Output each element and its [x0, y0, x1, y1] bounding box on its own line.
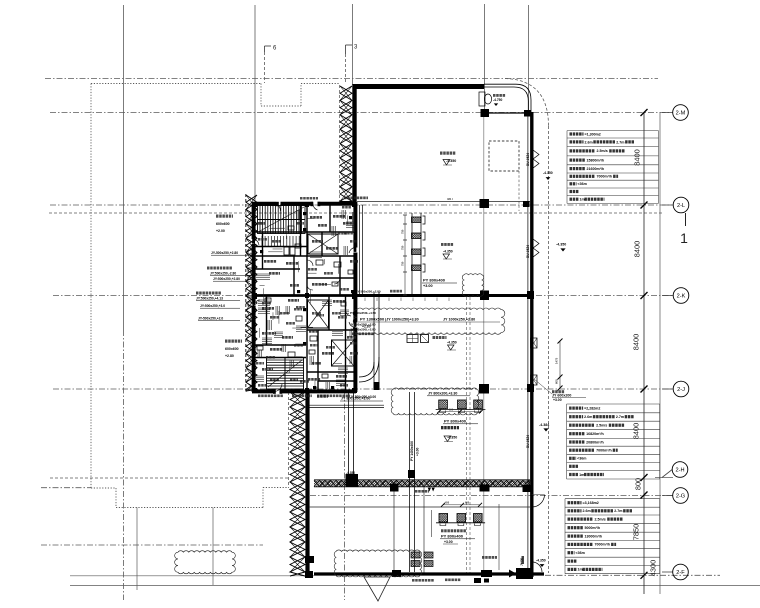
svg-text:-4.750: -4.750 [493, 98, 503, 102]
svg-text:7000m³/h: 7000m³/h [596, 448, 612, 452]
svg-text:1: 1 [680, 230, 688, 246]
svg-text:15800m³/h: 15800m³/h [587, 158, 605, 162]
svg-text:PY 800x400: PY 800x400 [441, 534, 464, 539]
svg-text:<36m: <36m [578, 182, 587, 186]
svg-text:JY 800x200,+3.30: JY 800x200,+3.30 [428, 392, 457, 396]
svg-text:JY-500x250,+2.0: JY-500x250,+2.0 [198, 317, 223, 321]
svg-text:2.5m/s: 2.5m/s [596, 423, 607, 427]
svg-text:-4.350: -4.350 [536, 559, 546, 563]
svg-text:600x600: 600x600 [225, 347, 239, 351]
svg-text:-4.350: -4.350 [447, 341, 457, 345]
svg-text:=2,282m2: =2,282m2 [584, 406, 600, 410]
svg-text:8400: 8400 [632, 334, 641, 350]
svg-text:150: 150 [449, 409, 454, 412]
svg-text:-4.384: -4.384 [539, 423, 549, 427]
svg-text:5000m³/h: 5000m³/h [585, 526, 601, 530]
svg-text:1m: 1m [579, 473, 584, 477]
svg-text:450: 450 [445, 502, 450, 505]
svg-text:+2.80: +2.80 [225, 354, 234, 358]
svg-text:JY 800x200,+3.00: JY 800x200,+3.00 [341, 397, 370, 401]
svg-text:2.7m: 2.7m [616, 140, 624, 144]
svg-text:<36m: <36m [577, 457, 586, 461]
svg-text:2-J: 2-J [677, 387, 685, 393]
svg-text:JY 500x250,+2.80: JY 500x250,+2.80 [356, 290, 381, 294]
svg-text:JY-500x250,+2.80: JY-500x250,+2.80 [211, 251, 238, 255]
svg-text:8400: 8400 [633, 149, 642, 165]
svg-text:1m: 1m [578, 568, 583, 572]
svg-text:PY 800x400: PY 800x400 [444, 419, 467, 424]
svg-text:2.6m: 2.6m [583, 509, 591, 513]
svg-text:7000m³/h: 7000m³/h [595, 543, 611, 547]
svg-text:+3.00: +3.00 [553, 398, 562, 402]
svg-text:<36m: <36m [576, 551, 585, 555]
svg-text:2.5m/s: 2.5m/s [597, 149, 608, 153]
svg-text:JY:500x250,-2.80: JY:500x250,-2.80 [210, 272, 236, 276]
svg-text:PY 1300x500: PY 1300x500 [360, 317, 385, 322]
svg-text:(JY 1000x250)+3.30: (JY 1000x250)+3.30 [385, 318, 419, 322]
svg-text:PY 800x400: PY 800x400 [423, 278, 446, 283]
svg-text:-4.350: -4.350 [443, 250, 453, 254]
svg-text:DU-15Z4: DU-15Z4 [526, 245, 530, 258]
svg-text:JY:500x250,+2.80: JY:500x250,+2.80 [213, 277, 240, 281]
svg-text:JY:500x250,+4.13: JY:500x250,+4.13 [196, 297, 223, 301]
svg-text:1m: 1m [580, 198, 585, 202]
svg-text:JY 150x250L+2.80: JY 150x250L+2.80 [350, 323, 376, 327]
svg-text:16820m³/h: 16820m³/h [586, 432, 604, 436]
svg-text:=1,300m2: =1,300m2 [585, 132, 601, 136]
svg-text:+3.00: +3.00 [444, 540, 453, 544]
svg-text:JY:500x250,+3.0: JY:500x250,+3.0 [200, 304, 225, 308]
svg-text:20800m³/h: 20800m³/h [586, 440, 604, 444]
svg-text:-4.350: -4.350 [346, 471, 355, 475]
svg-text:8400: 8400 [633, 241, 642, 257]
svg-text:8400: 8400 [632, 423, 641, 439]
svg-text:2-M: 2-M [676, 110, 686, 116]
svg-text:2-H: 2-H [675, 467, 684, 473]
svg-text:750: 750 [401, 261, 405, 266]
svg-text:-4.350: -4.350 [543, 171, 553, 175]
svg-text:21600m³/h: 21600m³/h [587, 167, 605, 171]
svg-text:PY-150x250L+4.50: PY-150x250L+4.50 [350, 311, 376, 315]
svg-text:750: 750 [401, 245, 405, 250]
svg-text:13000m³/h: 13000m³/h [585, 534, 603, 538]
svg-text:600: 600 [555, 379, 559, 384]
svg-text:+3.00: +3.00 [416, 447, 420, 456]
svg-text:2.7m: 2.7m [616, 415, 624, 419]
svg-text:2-K: 2-K [677, 293, 686, 299]
svg-text:JY420: JY420 [520, 557, 524, 566]
svg-text:2-L: 2-L [677, 203, 685, 209]
svg-text:PY 1400x400: PY 1400x400 [410, 441, 414, 461]
svg-text:2-F: 2-F [676, 570, 685, 576]
svg-text:7000m³/h: 7000m³/h [597, 175, 613, 179]
svg-text:2.7m: 2.7m [614, 509, 622, 513]
svg-text:+2.00: +2.00 [216, 229, 225, 233]
svg-text:=3,168m2: =3,168m2 [583, 501, 599, 505]
svg-text:2.6m: 2.6m [585, 140, 593, 144]
svg-text:481 l: 481 l [447, 197, 453, 201]
svg-text:2.6m: 2.6m [584, 415, 592, 419]
svg-text:DU-15Z4: DU-15Z4 [526, 435, 530, 448]
svg-text:600x600: 600x600 [216, 222, 230, 226]
svg-text:DU-15Z4: DU-15Z4 [526, 153, 530, 166]
svg-text:JY 1000x250,+2.80: JY 1000x250,+2.80 [443, 318, 475, 322]
svg-text:750: 750 [401, 229, 405, 234]
svg-text:600: 600 [465, 502, 470, 505]
svg-text:2.5m/s: 2.5m/s [595, 517, 606, 521]
svg-text:+3.00: +3.00 [423, 284, 433, 288]
svg-text:JY 500x250L+2.80: JY 500x250L+2.80 [350, 328, 376, 332]
svg-text:-4.350: -4.350 [556, 243, 566, 247]
svg-text:2-G: 2-G [676, 493, 685, 499]
svg-text:1475: 1475 [555, 357, 559, 364]
svg-text:800: 800 [634, 478, 643, 490]
